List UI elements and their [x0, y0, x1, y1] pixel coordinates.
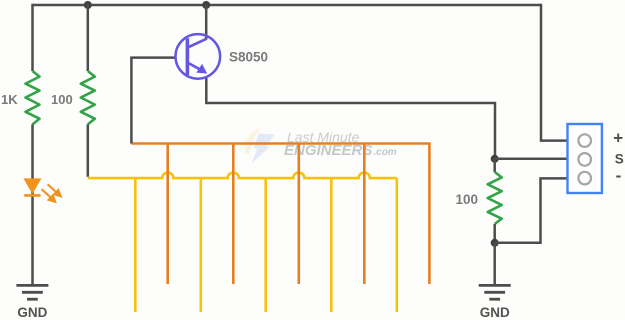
wire collector of Q1 to rail	[205, 5, 208, 40]
wire left branch below resistor	[31, 124, 34, 285]
wire orange drop 4	[363, 144, 366, 285]
svg-text:1K: 1K	[1, 92, 18, 107]
wire top power rail	[33, 4, 542, 7]
watermark logo bolt	[238, 127, 275, 164]
wire orange drop 1	[166, 144, 169, 285]
wire V+ to connector + pin	[541, 4, 568, 141]
wire resistor R3 to lower junction	[493, 224, 496, 243]
wire yellow drop 3	[264, 178, 267, 312]
wire base of Q1 to orange bus	[131, 58, 176, 144]
wire orange drop 3	[297, 144, 300, 285]
wire emitter of Q1 to S junction	[206, 78, 495, 159]
LED light arrow 2	[42, 189, 56, 202]
transistor Q1 S8050	[176, 34, 221, 79]
svg-text:S8050: S8050	[229, 50, 268, 65]
node junction dot S	[491, 155, 499, 163]
ground GND left	[16, 285, 48, 299]
wire lower junction to connector minus pin	[495, 178, 568, 242]
svg-text:GND: GND	[17, 305, 47, 320]
wire junction to resistor R3	[493, 159, 496, 172]
svg-text:-: -	[616, 166, 622, 185]
svg-text:100: 100	[456, 192, 479, 207]
wire yellow drop 1	[134, 178, 137, 312]
wire yellow drop 4	[330, 178, 333, 312]
wire S junction to connector	[495, 158, 568, 161]
wire lower junction to ground	[493, 243, 496, 285]
resistor R1 1K	[26, 71, 40, 124]
ground GND right	[479, 285, 511, 299]
resistor R3 100	[488, 172, 502, 224]
wire yellow drop 2	[200, 178, 203, 312]
wire second branch top	[87, 4, 90, 71]
wire orange bus	[131, 144, 429, 285]
node junction dot left rail	[84, 1, 92, 9]
wire second branch to yellow bus	[87, 124, 90, 176]
wire left branch top	[31, 4, 34, 71]
node junction dot collector rail	[202, 1, 210, 9]
wire yellow common bus with hops	[88, 173, 397, 179]
resistor R2 100	[81, 71, 95, 124]
svg-text:+: +	[613, 129, 623, 148]
svg-text:100: 100	[51, 92, 73, 107]
LED D1	[23, 178, 41, 195]
LED light arrow 1	[48, 184, 61, 196]
wire orange drop 2	[232, 144, 235, 285]
wire yellow drop 5	[395, 178, 398, 312]
svg-text:S: S	[615, 152, 624, 167]
svg-text:GND: GND	[480, 305, 510, 320]
connector J1	[568, 124, 602, 193]
node junction dot lower	[491, 239, 499, 247]
